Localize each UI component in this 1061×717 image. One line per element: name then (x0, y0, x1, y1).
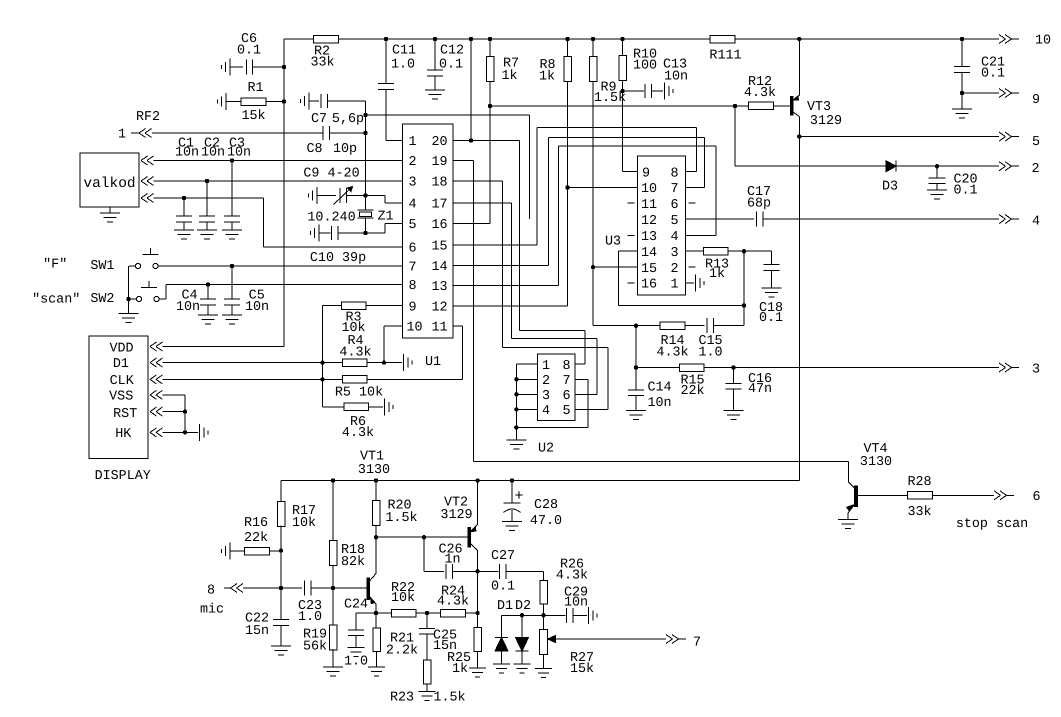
diode D3 (882, 161, 898, 195)
svg-text:1k: 1k (501, 69, 517, 84)
U3 pin6 stub (689, 202, 696, 204)
wire: CLK line from DISPLAY (163, 378, 343, 380)
resistor R8 (539, 39, 571, 188)
svg-text:1.5k: 1.5k (385, 511, 417, 526)
block valkod (80, 153, 139, 207)
svg-text:47n: 47n (748, 382, 772, 397)
resistor R22 (391, 581, 416, 617)
ground symbol at R4 (403, 354, 405, 371)
node: output 9 (962, 89, 1040, 109)
wire: VT3 collector vertical (797, 134, 801, 480)
node: mic input 8 (200, 584, 243, 618)
svg-text:47.0: 47.0 (530, 514, 562, 529)
svg-text:10n: 10n (175, 146, 199, 161)
svg-text:1k: 1k (452, 662, 468, 677)
node: RF2 input 1 (118, 110, 160, 143)
resistor R21 (368, 613, 418, 676)
svg-text:8: 8 (408, 279, 416, 294)
svg-text:2: 2 (1031, 162, 1039, 177)
resistor R10 (619, 39, 657, 172)
svg-text:10n: 10n (176, 300, 200, 315)
svg-text:valkod: valkod (83, 176, 135, 192)
crystal Z1 (307, 210, 393, 226)
svg-text:6: 6 (670, 198, 678, 213)
DISPLAY pin RST (113, 407, 162, 422)
svg-text:33k: 33k (907, 505, 931, 520)
capacitor C9 (trimmer) (303, 167, 365, 205)
wire: U1 pin16 to R7 (453, 106, 490, 224)
transistor VT1 (358, 450, 390, 616)
wire: U2 pin7 to ground bus (516, 379, 588, 427)
resistor R17 (277, 481, 316, 553)
capacitor C26 (422, 535, 478, 579)
svg-text:10: 10 (406, 321, 422, 336)
capacitor C21 (954, 39, 1005, 95)
capacitor C29 (564, 586, 597, 624)
ground for switches (119, 313, 139, 315)
svg-text:Z1: Z1 (377, 210, 393, 225)
diode D1 (493, 599, 513, 673)
svg-text:C11: C11 (392, 44, 416, 59)
svg-text:7: 7 (408, 261, 416, 276)
wire: C9 jog to U1 pin4 (366, 196, 403, 204)
resistor R23 (390, 660, 466, 706)
transistor VT2 (440, 481, 479, 574)
capacitor C11 (378, 39, 416, 141)
wire: U2 ground bus (514, 364, 537, 440)
svg-text:D1: D1 (497, 599, 513, 614)
svg-text:2: 2 (542, 374, 550, 389)
resistor R28 (907, 475, 994, 520)
resistor R1 (218, 81, 285, 124)
svg-text:"F": "F" (43, 258, 67, 273)
svg-text:100: 100 (633, 59, 657, 74)
capacitor C14 (626, 368, 672, 420)
DISPLAY pin CLK (110, 374, 163, 389)
svg-text:C7: C7 (311, 112, 327, 127)
transistor VT3 (791, 39, 843, 137)
svg-text:SW1: SW1 (90, 259, 114, 274)
svg-text:R111: R111 (709, 49, 741, 64)
resistor R7 (486, 39, 519, 108)
svg-text:U1: U1 (425, 355, 441, 370)
svg-text:3130: 3130 (860, 455, 892, 470)
node: output 4 (999, 215, 1040, 230)
capacitor C13 (623, 58, 689, 100)
svg-text:C28: C28 (534, 498, 558, 513)
svg-text:7: 7 (562, 374, 570, 389)
svg-text:C14: C14 (647, 381, 671, 396)
svg-text:13: 13 (641, 230, 657, 245)
wire: valkod line 3 (141, 194, 264, 248)
switch SW2 (32, 281, 402, 308)
svg-text:mic: mic (200, 603, 224, 618)
wire: U1 pin13 net to U3 pin4 (453, 146, 716, 286)
capacitor C4 (176, 285, 218, 325)
U3 pin13 stub (628, 235, 635, 237)
svg-text:5: 5 (562, 404, 570, 419)
switch SW1 (43, 248, 402, 274)
svg-text:1: 1 (542, 359, 550, 374)
svg-text:4.3k: 4.3k (342, 426, 374, 441)
wire: U1 pin17 net to U2 pin6 (453, 203, 597, 394)
svg-text:4.3k: 4.3k (339, 346, 371, 361)
svg-text:3: 3 (670, 246, 678, 261)
wire: U1 pin11 jog (403, 326, 463, 379)
wire: net 2 from R12 node (735, 106, 886, 166)
svg-text:22k: 22k (244, 531, 268, 546)
svg-text:R28: R28 (907, 475, 931, 490)
wire: VSS RST HK common (163, 395, 199, 435)
svg-text:C8: C8 (306, 142, 322, 157)
svg-text:RST: RST (113, 407, 137, 422)
node: output 5 (799, 132, 1040, 150)
wire: valkod line 1 to U1 pin2 (141, 156, 403, 165)
wire: +V top rail (284, 37, 999, 41)
svg-text:4: 4 (670, 230, 678, 245)
svg-text:0.1: 0.1 (491, 580, 515, 595)
ground under valkod (100, 207, 120, 222)
wire: U1 pin20 net to U2 pin8 (453, 39, 585, 364)
wire: to U1 pin6 (264, 246, 403, 248)
svg-text:10k: 10k (391, 591, 415, 606)
wire: R9 to U3 pin15 (591, 265, 638, 269)
capacitor C28 (502, 481, 562, 531)
resistor R6 (323, 403, 384, 441)
svg-text:VDD: VDD (109, 342, 133, 357)
svg-text:3: 3 (1032, 363, 1040, 378)
capacitor C1 (174, 137, 199, 240)
svg-text:5: 5 (670, 214, 678, 229)
resistor R5 (335, 376, 463, 401)
svg-text:1.0: 1.0 (391, 58, 415, 73)
wire: VT1 emitter node line (356, 611, 478, 615)
capacitor C27 (478, 549, 544, 595)
DISPLAY pin D1 (113, 357, 163, 372)
svg-text:5: 5 (408, 218, 416, 233)
resistor R14 (593, 267, 705, 360)
wire: VT2 collector to emitter-node line (475, 571, 479, 615)
op-amp U2 (IC box) (538, 354, 576, 421)
svg-text:5: 5 (1032, 135, 1040, 150)
resistor R18 (329, 481, 365, 589)
svg-text:9: 9 (1032, 93, 1040, 108)
svg-text:1: 1 (408, 135, 416, 150)
svg-text:10p: 10p (333, 142, 357, 157)
svg-text:15: 15 (431, 240, 447, 255)
DISPLAY pin VSS (109, 390, 162, 405)
resistor R26 (540, 558, 588, 616)
node: output 7 (666, 635, 701, 651)
resistor R20 (372, 481, 417, 540)
svg-text:11: 11 (431, 321, 447, 336)
svg-text:22k: 22k (680, 384, 704, 399)
svg-text:6: 6 (562, 389, 570, 404)
svg-text:8: 8 (562, 359, 570, 374)
resistor R19 (303, 588, 343, 676)
transistor VT4 (838, 442, 908, 529)
svg-text:RF2: RF2 (136, 110, 160, 125)
svg-text:12: 12 (431, 301, 447, 316)
svg-text:10.240: 10.240 (307, 211, 355, 226)
svg-text:VSS: VSS (109, 390, 133, 405)
node: rail output 10 arrow (999, 34, 1051, 49)
capacitor C16 (724, 368, 773, 420)
wire: U1 pin19 net to VT4 base (453, 161, 849, 462)
op-amp U3 (IC box) (638, 156, 686, 295)
U3 pin2 stub (689, 266, 696, 268)
node: output 2 (896, 162, 1040, 177)
svg-text:10: 10 (641, 182, 657, 197)
svg-text:15k: 15k (570, 662, 594, 677)
svg-text:82k: 82k (341, 555, 365, 570)
svg-text:17: 17 (431, 198, 447, 213)
svg-text:0.1: 0.1 (237, 44, 261, 59)
svg-text:4: 4 (542, 404, 550, 419)
DISPLAY pin HK (115, 427, 162, 442)
svg-text:3: 3 (542, 389, 550, 404)
wire: R13 node vertical (743, 251, 745, 326)
svg-text:10n: 10n (647, 396, 671, 411)
capacitor C24 (344, 598, 368, 670)
svg-text:1.0: 1.0 (298, 610, 322, 625)
capacitor C2 (197, 137, 225, 240)
svg-text:8: 8 (207, 584, 215, 599)
ground under U2 (506, 439, 526, 441)
wire: net 3 vertical from R14 line (634, 326, 638, 370)
svg-text:1.0: 1.0 (344, 655, 368, 670)
svg-text:R5 10k: R5 10k (335, 386, 383, 401)
wire: R3/R4 junction vertical (320, 306, 324, 407)
svg-text:"scan": "scan" (32, 293, 80, 308)
block DISPLAY (89, 336, 151, 484)
svg-text:7: 7 (670, 182, 678, 197)
capacitor C23 (243, 581, 335, 626)
wire: R16 node to mic line (279, 551, 283, 591)
svg-text:1n: 1n (444, 553, 460, 568)
svg-text:R16: R16 (244, 516, 268, 531)
wire: R8 to U3 pin10 (568, 187, 638, 189)
svg-text:SW2: SW2 (90, 292, 114, 307)
wire: crystal net vertical (363, 113, 367, 235)
svg-text:14: 14 (431, 260, 447, 275)
wire: U1 pin15 net to U3 pin8 (453, 127, 697, 245)
ground under C21 (952, 93, 972, 118)
svg-text:14: 14 (641, 246, 657, 261)
svg-text:3130: 3130 (358, 463, 390, 478)
svg-text:10n: 10n (564, 596, 588, 611)
svg-text:3129: 3129 (440, 508, 472, 523)
svg-text:1k: 1k (539, 70, 555, 85)
U3 pin11 stub (628, 202, 635, 204)
svg-text:68p: 68p (747, 197, 771, 212)
svg-text:U3: U3 (605, 235, 621, 250)
capacitor C3 (222, 137, 251, 240)
svg-text:1k: 1k (709, 267, 725, 282)
wire: diode clamp line (502, 613, 566, 617)
wire: C10 jog to U1 pin5 (366, 224, 403, 234)
capacitor C12 (425, 39, 464, 99)
svg-text:16: 16 (641, 278, 657, 293)
svg-text:4: 4 (1032, 215, 1040, 230)
svg-text:20: 20 (431, 135, 447, 150)
wire: U3 pin14 net (619, 251, 747, 307)
wire: R10 to U3 pin9 (623, 171, 638, 173)
svg-text:10k: 10k (292, 516, 316, 531)
svg-text:9: 9 (642, 166, 650, 181)
svg-text:5,6p: 5,6p (332, 112, 364, 127)
capacitor C5 (222, 266, 269, 324)
diode D2 (514, 599, 532, 673)
wire: VT2 base line (376, 536, 468, 538)
svg-text:R1: R1 (247, 81, 263, 96)
U3 pin1 ground (686, 274, 705, 291)
capacitor C15 (698, 318, 744, 360)
U3 pin16 stub (628, 282, 635, 284)
wire: switch ground bus (126, 266, 130, 314)
svg-text:6: 6 (1032, 490, 1040, 505)
resistor R12 (744, 75, 791, 110)
DISPLAY pin VDD (109, 342, 162, 357)
resistor R111 (709, 35, 741, 63)
svg-text:1.0: 1.0 (698, 346, 722, 361)
svg-text:0.1: 0.1 (981, 67, 1005, 82)
svg-text:10n: 10n (201, 146, 225, 161)
svg-text:10n: 10n (245, 300, 269, 315)
capacitor C8 (152, 126, 366, 157)
ground symbol HK (199, 424, 201, 441)
svg-text:6: 6 (408, 242, 416, 257)
wire: U1 pin14 net to U3 pin7 (453, 137, 705, 265)
svg-text:10: 10 (1035, 34, 1051, 49)
svg-text:2: 2 (670, 262, 678, 277)
svg-text:C12: C12 (440, 44, 464, 59)
svg-text:stop scan: stop scan (956, 517, 1028, 532)
ground symbol at R6 (384, 398, 386, 415)
svg-text:R23: R23 (390, 691, 414, 706)
svg-text:56k: 56k (303, 640, 327, 655)
capacitor C18 (759, 251, 783, 326)
svg-text:1.5k: 1.5k (594, 91, 626, 106)
svg-text:DISPLAY: DISPLAY (95, 469, 151, 484)
svg-text:0.1: 0.1 (439, 58, 463, 73)
wire: U1 pin18 net to U2 pin5 (453, 181, 608, 409)
wire: C7 node to U3 pin12 (366, 115, 530, 219)
wire: R7 node to R12 base line (490, 104, 749, 108)
resistor R3 (323, 302, 403, 336)
svg-text:10n: 10n (664, 70, 688, 85)
wire: D1 line from DISPLAY (163, 362, 343, 364)
potentiometer R27 (535, 615, 666, 677)
resistor R25 (447, 613, 486, 677)
svg-text:8: 8 (670, 166, 678, 181)
capacitor C17 (686, 185, 1000, 227)
svg-text:13: 13 (431, 280, 447, 295)
resistor R15 (636, 364, 999, 399)
capacitor C10 (310, 225, 366, 267)
capacitor C7 (301, 93, 366, 128)
resistor R13 (686, 247, 772, 282)
wire: U1 pin10 to R4 (384, 326, 403, 363)
svg-text:1: 1 (670, 278, 678, 293)
svg-text:15k: 15k (241, 109, 265, 124)
capacitor C25 (419, 613, 457, 660)
svg-text:15: 15 (641, 262, 657, 277)
svg-text:+: + (514, 488, 523, 505)
svg-text:12: 12 (641, 214, 657, 229)
svg-text:4.3k: 4.3k (744, 86, 776, 101)
svg-text:1: 1 (118, 128, 126, 143)
svg-text:10n: 10n (227, 146, 251, 161)
capacitor C6 (222, 32, 285, 76)
resistor R16 (222, 516, 282, 560)
svg-text:HK: HK (115, 427, 132, 442)
svg-text:4.3k: 4.3k (656, 346, 688, 361)
capacitor C20 (927, 166, 978, 199)
svg-text:0.1: 0.1 (759, 311, 783, 326)
svg-text:7: 7 (693, 636, 701, 651)
svg-text:2: 2 (408, 155, 416, 170)
wire: valkod line 2 to U1 pin3 (141, 177, 403, 186)
svg-text:9: 9 (408, 301, 416, 316)
wire: left supply bus x=284 (282, 39, 286, 347)
svg-text:C9 4-20: C9 4-20 (303, 167, 359, 182)
svg-text:4: 4 (408, 198, 416, 213)
svg-text:C24: C24 (344, 598, 368, 613)
svg-text:19: 19 (431, 155, 447, 170)
node: output 3 (999, 363, 1040, 378)
svg-text:18: 18 (431, 176, 447, 191)
resistor R2 (310, 35, 338, 70)
svg-text:CLK: CLK (110, 374, 135, 389)
resistor R9 (589, 39, 626, 267)
wire: U1 pin12 net to R8 (453, 185, 570, 306)
wire: VT1 base (333, 587, 367, 589)
svg-text:3: 3 (408, 176, 416, 191)
svg-text:4.3k: 4.3k (556, 569, 588, 584)
svg-text:VT3: VT3 (807, 100, 831, 115)
svg-text:C10 39p: C10 39p (310, 251, 366, 266)
svg-text:11: 11 (641, 198, 657, 213)
svg-text:15n: 15n (245, 624, 269, 639)
svg-text:0.1: 0.1 (953, 184, 977, 199)
svg-text:C27: C27 (491, 549, 515, 564)
svg-text:3129: 3129 (810, 114, 842, 129)
svg-text:4.3k: 4.3k (437, 595, 469, 610)
resistor R4 (339, 334, 402, 366)
wire: audio supply line (281, 478, 799, 482)
svg-text:D2: D2 (515, 599, 531, 614)
capacitor C22 (245, 588, 291, 655)
op-amp U1 (IC box) (403, 124, 454, 338)
svg-text:2.2k: 2.2k (386, 644, 418, 659)
svg-text:16: 16 (431, 218, 447, 233)
svg-text:D1: D1 (113, 357, 129, 372)
svg-text:33k: 33k (310, 56, 334, 71)
node: output 6 (956, 490, 1041, 532)
wire: VDD line (163, 346, 285, 348)
resistor R24 (437, 585, 469, 617)
svg-text:U2: U2 (538, 442, 554, 457)
svg-text:D3: D3 (882, 180, 898, 195)
svg-text:1.5k: 1.5k (433, 691, 465, 706)
